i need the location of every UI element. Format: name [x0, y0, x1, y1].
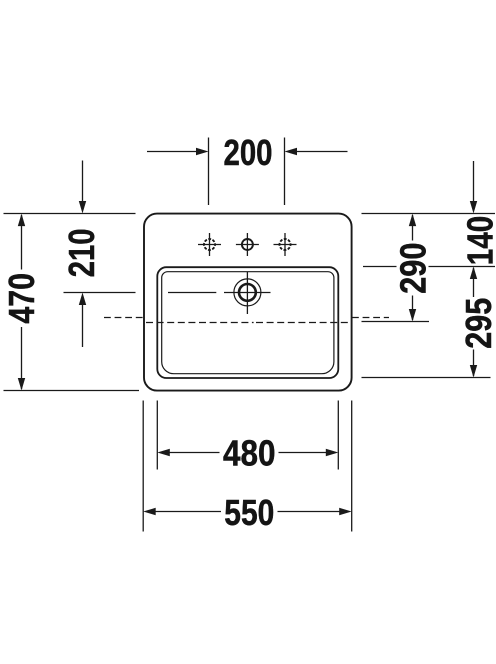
- drain vertical crosshair: [246, 272, 248, 314]
- dimension 480 extension line right: [337, 401, 339, 470]
- dimension 470 line with arrows: [18, 214, 25, 391]
- basin bowl outer edge 480x295: [157, 267, 338, 378]
- drain outer circle: [234, 279, 261, 306]
- center tap hole: [236, 233, 259, 256]
- dimension 480 line with arrows: [157, 449, 338, 456]
- basin bowl inner edge: [162, 272, 334, 374]
- svg-text:200: 200: [224, 133, 273, 173]
- center axis dash-dot line left part: [146, 322, 250, 324]
- right extension line at bowl rim level: [363, 266, 495, 268]
- dimension label 210: [62, 229, 102, 278]
- dimension 200 left arrow: [147, 148, 209, 155]
- hidden edge dashed stub left: [104, 317, 144, 319]
- svg-text:210: 210: [62, 229, 102, 278]
- bottom edge extension line left: [4, 390, 140, 392]
- dimension label 200: [224, 133, 273, 173]
- svg-text:550: 550: [224, 493, 274, 533]
- right extension line at bowl bottom level: [362, 377, 491, 379]
- dimension 200 extension line right: [284, 138, 286, 206]
- dimension 290 line with arrows: [409, 214, 416, 322]
- hidden edge dashed stub right: [352, 317, 389, 319]
- dimension label 470: [2, 273, 42, 324]
- right optional tap hole (dashed): [274, 233, 297, 256]
- dimension 200 right arrow: [285, 148, 348, 155]
- dimension label 140: [461, 216, 496, 265]
- top edge extension line left: [4, 213, 136, 215]
- drain horizontal crosshair: [224, 292, 271, 294]
- washbasin outer rim 550x470: [144, 214, 352, 391]
- dimension 295 line with arrows: [470, 267, 477, 378]
- dimension label 290: [393, 243, 433, 294]
- center axis dot: [252, 322, 254, 324]
- dimension 210 top arrow: [79, 161, 86, 214]
- svg-text:470: 470: [2, 273, 42, 324]
- svg-text:290: 290: [393, 243, 433, 294]
- svg-text:140: 140: [461, 216, 496, 265]
- overflow level line inside bowl: [168, 292, 216, 294]
- dimension 140 top arrow: [470, 161, 477, 214]
- drain inner circle: [239, 284, 256, 301]
- dimension 480 extension line left: [156, 401, 158, 470]
- dimension 210 extension line: [64, 292, 136, 294]
- dimension label 295: [459, 298, 496, 349]
- dimension 550 extension line left: [142, 401, 144, 532]
- dimension 550 line with arrows: [143, 508, 352, 515]
- dimension label 480: [223, 434, 276, 474]
- center axis dash-dot line right part: [256, 322, 351, 324]
- dimension 200 extension line left: [208, 138, 210, 206]
- dimension 210 bottom arrow: [79, 293, 86, 348]
- top edge extension line right: [362, 213, 496, 215]
- dimension 550 extension line right: [351, 401, 353, 532]
- right extension line at waterline level: [362, 321, 430, 323]
- svg-text:480: 480: [223, 434, 276, 474]
- svg-text:295: 295: [459, 298, 496, 349]
- left optional tap hole (dashed): [198, 233, 221, 256]
- dimension label 550: [224, 493, 274, 533]
